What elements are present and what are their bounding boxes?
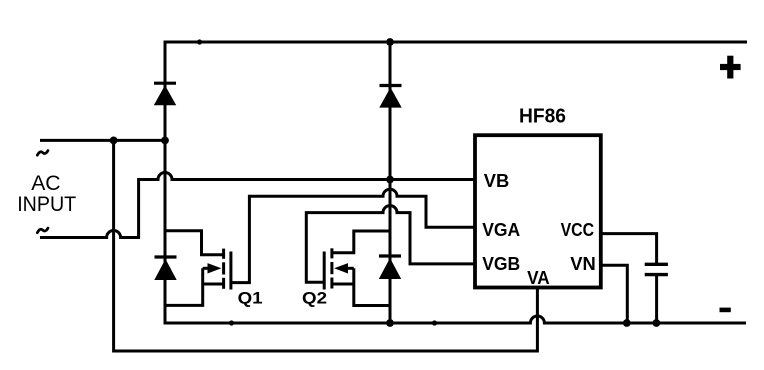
transistor Q2 channel bars [330,248,333,288]
node AC tilde bottom [37,228,48,233]
transistor Q1 channel bars [222,249,225,289]
svg-text:Q2: Q2 [302,288,327,307]
wire Q2 gate to VGB pin [306,206,475,290]
wire Q1 source/body branch [166,268,223,305]
node junction dots [110,38,661,327]
node AC tilde top [37,151,48,156]
wire center vertical x=390 [389,42,392,323]
svg-text:VCC: VCC [561,220,595,240]
IC U1 HF86 box [475,135,601,287]
svg-text:VGA: VGA [482,220,520,240]
wire Q1 gate to VGA pin [230,189,475,289]
transistor Q1 body arrow [203,263,222,273]
diode D1 top-left [154,83,176,105]
wire VN to bottom rail [601,265,628,323]
wire top rail + left vertical + bottom rail [165,42,747,323]
wire VCC to capacitor [601,234,657,263]
wire VA net: x=113.6 vertical, bottom return, up to VA pin [114,140,538,351]
wire Q1 drain branch [166,231,223,255]
wire AC input top [40,139,165,142]
svg-text:INPUT: INPUT [17,192,76,216]
svg-text:VB: VB [484,171,510,191]
svg-text:VN: VN [570,254,596,274]
plus terminal [720,56,741,79]
svg-text:HF86: HF86 [519,106,566,128]
diode D4 near Q2 [379,256,401,279]
diode D2 top-center [379,86,401,108]
svg-text:VGB: VGB [482,254,520,274]
svg-text:Q1: Q1 [238,288,263,307]
wire capacitor to bottom rail [655,276,658,323]
svg-text:VA: VA [527,268,550,288]
capacitor C1 plates [645,264,668,274]
wire Q2 drain branch [333,231,390,253]
wire Q2 source/body branch [333,268,390,305]
wire AC input bottom to VB pin [40,173,475,238]
transistor Q2 body arrow [334,263,354,273]
diode D3 near Q1 [154,257,176,280]
minus terminal [720,308,731,313]
